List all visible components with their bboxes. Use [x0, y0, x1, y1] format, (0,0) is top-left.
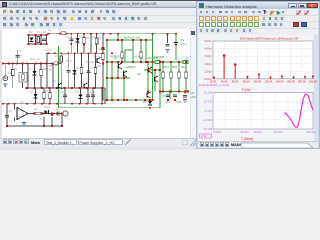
svg-text:5.00m: 5.00m	[204, 39, 212, 43]
svg-text:F1: F1	[58, 28, 62, 32]
svg-text:R6: R6	[34, 107, 38, 111]
svg-text:1n: 1n	[19, 53, 23, 57]
svg-text:2SC5200: 2SC5200	[147, 56, 159, 60]
svg-text:R14: R14	[30, 57, 36, 61]
svg-text:80.00u: 80.00u	[254, 130, 262, 134]
svg-text:18.300: 18.300	[203, 91, 212, 95]
svg-text:MJE: MJE	[46, 68, 52, 72]
svg-text:2SC52: 2SC52	[86, 60, 95, 64]
svg-text:C6: C6	[98, 47, 102, 51]
svg-text:130.00u: 130.00u	[273, 130, 283, 134]
svg-text:R4: R4	[86, 36, 90, 40]
svg-text:1k: 1k	[37, 57, 41, 61]
svg-text:C9: C9	[60, 90, 64, 94]
svg-text:Q6: Q6	[162, 94, 166, 98]
svg-text:160.0K: 160.0K	[287, 79, 295, 83]
svg-text:1.00m: 1.00m	[204, 69, 212, 73]
svg-text:Dlog: Dlog	[44, 105, 50, 109]
svg-text:R3: R3	[97, 64, 101, 68]
svg-text:I1: I1	[60, 105, 63, 109]
svg-text:2.00m: 2.00m	[204, 62, 212, 66]
svg-text:80.0K: 80.0K	[243, 79, 250, 83]
svg-text:D3: D3	[76, 66, 80, 70]
svg-text:-10.300: -10.300	[203, 118, 213, 122]
svg-text:QP: QP	[137, 72, 141, 76]
svg-text:QY: QY	[114, 56, 118, 60]
svg-text:D2: D2	[29, 30, 33, 34]
svg-text:D8: D8	[75, 90, 79, 94]
svg-text:vOut: vOut	[201, 134, 207, 138]
svg-text:120.0K: 120.0K	[264, 79, 272, 83]
svg-text:3.00m: 3.00m	[204, 54, 212, 58]
svg-text:Q3: Q3	[91, 35, 95, 39]
svg-text:100.0K: 100.0K	[253, 79, 261, 83]
svg-text:200.00u: 200.00u	[306, 130, 316, 134]
svg-text:D5: D5	[79, 35, 83, 39]
svg-text:0.000u: 0.000u	[213, 130, 221, 134]
svg-text:C14: C14	[165, 100, 171, 104]
svg-text:200.0K: 200.0K	[309, 79, 317, 83]
svg-text:R8: R8	[98, 56, 102, 60]
svg-text:mOhm: mOhm	[44, 48, 53, 52]
svg-text:Q1: Q1	[93, 54, 97, 58]
svg-text:Q2: Q2	[52, 79, 56, 83]
svg-text:R21: R21	[164, 65, 170, 69]
svg-text:0.300: 0.300	[205, 109, 212, 113]
svg-text:R9: R9	[43, 30, 47, 34]
svg-text:D1: D1	[28, 67, 32, 71]
svg-text:2N: 2N	[55, 54, 59, 58]
svg-text:WS-Hadavi-BOPS-daemon1_BW6-gso: WS-Hadavi-BOPS-daemon1_BW6-gsotti-CiR	[240, 37, 298, 41]
svg-text:F2: F2	[48, 28, 52, 32]
svg-text:R23: R23	[181, 65, 187, 69]
svg-text:140.0K: 140.0K	[276, 79, 284, 83]
svg-text:C5: C5	[8, 109, 12, 113]
svg-text:10.300: 10.300	[203, 100, 212, 104]
svg-text:ihd(av(bu50Tfq_p_fo),2): ihd(av(bu50Tfq_p_fo),2)	[199, 83, 229, 87]
svg-text:60.0K: 60.0K	[232, 79, 239, 83]
svg-text:R22: R22	[172, 65, 178, 69]
svg-text:4.00m: 4.00m	[204, 47, 212, 51]
svg-text:D9: D9	[143, 100, 147, 104]
svg-text:BC5: BC5	[66, 59, 72, 63]
svg-text:C15: C15	[176, 100, 182, 104]
svg-text:UN: UN	[180, 38, 184, 42]
svg-text:D7: D7	[30, 90, 34, 94]
svg-text:U2: U2	[20, 100, 24, 104]
svg-text:C8: C8	[186, 89, 190, 93]
svg-text:C12: C12	[37, 30, 43, 34]
svg-text:R11: R11	[45, 89, 50, 93]
svg-text:C10: C10	[90, 90, 96, 94]
svg-text:R1: R1	[14, 67, 18, 71]
svg-text:-18.300: -18.300	[203, 127, 213, 131]
svg-text:R5: R5	[63, 52, 67, 56]
svg-text:42.4: 42.4	[134, 55, 140, 59]
svg-text:V1: V1	[8, 71, 12, 75]
svg-text:L4BB1N: L4BB1N	[125, 65, 135, 69]
svg-text:F (Hz): F (Hz)	[242, 88, 251, 92]
svg-text:BDP245_ON: BDP245_ON	[124, 36, 140, 40]
svg-text:60.00u: 60.00u	[241, 130, 249, 134]
svg-text:C3: C3	[65, 65, 69, 69]
svg-text:R7: R7	[98, 36, 102, 40]
svg-text:40PV: 40PV	[180, 43, 187, 47]
svg-text:C4: C4	[90, 66, 94, 70]
svg-text:180.0K: 180.0K	[298, 79, 306, 83]
svg-text:C1a: C1a	[66, 35, 72, 39]
